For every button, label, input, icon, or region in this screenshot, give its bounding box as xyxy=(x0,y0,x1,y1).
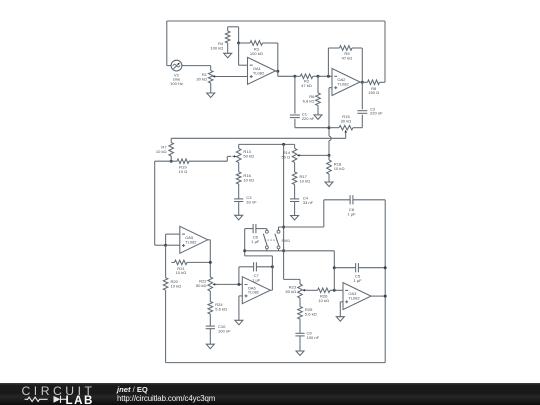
svg-text:1 µF: 1 µF xyxy=(252,277,261,282)
svg-text:50 kΩ: 50 kΩ xyxy=(243,154,254,159)
wire node down to OA1 minus xyxy=(238,43,240,65)
svg-text:30 kΩ: 30 kΩ xyxy=(196,76,207,81)
node OA5 input xyxy=(164,244,167,247)
svg-text:5.6 kΩ: 5.6 kΩ xyxy=(215,306,227,311)
svg-text:50 kΩ: 50 kΩ xyxy=(196,283,207,288)
svg-text:TL082: TL082 xyxy=(337,82,349,87)
svg-text:TL082: TL082 xyxy=(185,239,197,244)
capacitor C10 xyxy=(206,325,215,327)
node R2 right / R6 xyxy=(317,75,320,78)
svg-text:10 kΩ: 10 kΩ xyxy=(243,177,254,182)
resistor R6 xyxy=(317,76,319,93)
wire node to left drop xyxy=(155,160,172,162)
wire R23 branch xyxy=(284,278,300,280)
svg-text:10 kΩ: 10 kΩ xyxy=(318,298,329,303)
wire OA3 output xyxy=(371,295,385,297)
svg-text:150 Ω: 150 Ω xyxy=(368,90,379,95)
node C7 left xyxy=(237,283,240,286)
wire left vertical to V2 xyxy=(166,21,168,66)
wire OA2 plus down xyxy=(329,87,332,89)
switch SW1 left pole xyxy=(266,229,268,231)
wire OA3 plus to ground xyxy=(340,301,343,303)
ground below R4 xyxy=(224,53,232,58)
svg-text:TL082: TL082 xyxy=(253,70,265,75)
capacitor C6 xyxy=(245,228,253,230)
R23 wiper arrow xyxy=(302,289,305,292)
wire OA5 minus loop xyxy=(166,233,180,235)
resistor R17 xyxy=(292,172,297,185)
svg-text:1 µF: 1 µF xyxy=(353,278,362,283)
capacitor C8 xyxy=(324,199,350,201)
node R15 left xyxy=(328,126,331,129)
svg-text:50 Ω: 50 Ω xyxy=(282,155,291,160)
wire R13 top to R14 top xyxy=(239,143,295,145)
potentiometer R13 xyxy=(238,144,240,148)
R14 wiper arrow xyxy=(297,154,300,157)
node OA2 output xyxy=(361,81,364,84)
resistor R5 feedback xyxy=(327,48,329,76)
resistor R25 xyxy=(298,307,303,320)
wire C5 branch vertical xyxy=(333,251,335,290)
ground below R18 xyxy=(325,182,333,187)
svg-text:100 nF: 100 nF xyxy=(218,328,231,333)
op-amp OA5 xyxy=(180,226,208,253)
node R4/R3/OA1 inverting xyxy=(237,42,240,45)
resistor R21 xyxy=(171,261,174,263)
wire OA5 output down xyxy=(208,239,211,241)
resistor R26 xyxy=(318,288,331,293)
potentiometer R22 xyxy=(208,277,213,291)
wire right loop down xyxy=(384,200,386,363)
capacitor C4 xyxy=(290,198,299,200)
R1 wiper xyxy=(213,75,216,78)
potentiometer R1 xyxy=(210,66,212,71)
capacitor C5 xyxy=(334,267,355,269)
op-amp OA1 xyxy=(248,57,276,84)
wire OA6 output up xyxy=(270,289,272,291)
wire into OA5 plus xyxy=(166,244,180,246)
hop over bus xyxy=(329,136,331,140)
svg-text:10 kΩ: 10 kΩ xyxy=(300,178,311,183)
svg-text:47 kΩ: 47 kΩ xyxy=(301,83,312,88)
svg-text:10 kΩ: 10 kΩ xyxy=(156,149,167,154)
node OA6 out / rail xyxy=(243,249,246,252)
svg-text:LAB: LAB xyxy=(66,394,94,405)
resistor R24 xyxy=(208,302,213,315)
resistor R4 xyxy=(227,27,229,31)
node switch top rail xyxy=(282,226,285,229)
svg-text:30 kΩ: 30 kΩ xyxy=(341,119,352,124)
wire top feedback loop xyxy=(167,20,385,22)
node R14 wiper xyxy=(328,154,331,157)
resistor R19 xyxy=(171,160,177,162)
svg-text:TL082: TL082 xyxy=(248,290,260,295)
potentiometer R23 xyxy=(298,284,303,298)
wire switch vertical from tone line xyxy=(283,144,285,279)
ground below C9 xyxy=(296,351,304,356)
node R7 bottom xyxy=(170,160,173,163)
wire OA6 ground stem xyxy=(239,295,242,297)
ground below C4 xyxy=(291,216,299,221)
capacitor C2 xyxy=(361,82,363,109)
SW1 linkage xyxy=(265,239,278,241)
capacitor C7 feedback xyxy=(238,267,240,285)
wire R4 top to feedback node xyxy=(228,26,239,28)
svg-text:100 kΩ: 100 kΩ xyxy=(210,45,223,50)
ground below C3 xyxy=(235,215,243,220)
svg-text:33 nF: 33 nF xyxy=(303,200,314,205)
svg-text:100 Hz: 100 Hz xyxy=(170,81,183,86)
node tone line to switch xyxy=(282,143,285,146)
wire top rail to C8 xyxy=(279,226,324,228)
svg-text:1 µF: 1 µF xyxy=(251,239,260,244)
svg-text:47 kΩ: 47 kΩ xyxy=(342,56,353,61)
op-amp OA2 xyxy=(332,69,360,96)
wire C1 to R15 left xyxy=(295,127,329,129)
wire R19 to R13 wiper xyxy=(226,156,228,161)
wire V2 left stub xyxy=(167,65,171,67)
node R2 left / C1 xyxy=(293,75,296,78)
voltage source V2 xyxy=(171,60,182,71)
resistor R8 xyxy=(362,81,367,83)
ground below R1 xyxy=(207,93,215,98)
node C5 left xyxy=(333,266,336,269)
resistor R3 xyxy=(239,42,250,44)
node OA1 output xyxy=(276,70,279,73)
capacitor C9 xyxy=(295,332,304,334)
wire bottom rail xyxy=(245,250,335,252)
node switch bottom rail xyxy=(282,249,285,252)
resistor R20 xyxy=(165,245,167,278)
ground below C10 xyxy=(206,344,214,349)
CircuitLab footer bar xyxy=(0,383,540,405)
svg-text:220 nF: 220 nF xyxy=(302,116,315,121)
wire bottom rail of loop xyxy=(166,362,386,364)
svg-text:1 µF: 1 µF xyxy=(347,212,356,217)
R13 wiper arrow xyxy=(234,155,237,158)
op-amp OA3 xyxy=(343,283,371,310)
svg-text:5.6 kΩ: 5.6 kΩ xyxy=(305,312,317,317)
svg-text:10 kΩ: 10 kΩ xyxy=(171,284,182,289)
svg-text:6.8 kΩ: 6.8 kΩ xyxy=(303,99,315,104)
switch SW1 right pole xyxy=(278,227,280,230)
node R21 right xyxy=(209,261,212,264)
ground below OA6 xyxy=(235,320,243,325)
wire R2 to OA2 minus xyxy=(318,75,332,77)
svg-text:50 kΩ: 50 kΩ xyxy=(286,289,297,294)
svg-text:10 kΩ: 10 kΩ xyxy=(176,270,187,275)
wire R26 to OA3 minus xyxy=(334,289,343,291)
wire R3 to OA1 output xyxy=(277,43,279,71)
svg-text:10 kΩ: 10 kΩ xyxy=(334,166,345,171)
node R26 / OA3 minus xyxy=(333,289,336,292)
svg-text:100 kΩ: 100 kΩ xyxy=(250,51,263,56)
node C7 right xyxy=(271,265,274,268)
node OA3 output xyxy=(384,295,387,298)
resistor R18 xyxy=(328,155,330,160)
capacitor C3 xyxy=(234,198,243,200)
CircuitLab logo xyxy=(0,383,110,405)
ground below OA3 xyxy=(336,317,344,322)
wire bus R7 to R15 wiper xyxy=(171,137,346,139)
svg-text:TL082: TL082 xyxy=(348,296,360,301)
potentiometer R15 xyxy=(329,127,339,129)
svg-text:100 nF: 100 nF xyxy=(307,335,320,340)
wire V2 to R1 xyxy=(182,65,211,67)
potentiometer R14 xyxy=(294,144,296,148)
svg-text:33 nF: 33 nF xyxy=(246,200,257,205)
R15 wiper from bus xyxy=(345,134,347,139)
node C5 right xyxy=(384,266,387,269)
svg-text:220 nF: 220 nF xyxy=(370,111,383,116)
ground below R6 xyxy=(314,115,322,120)
resistor R7 xyxy=(170,138,172,142)
node R5 tap xyxy=(327,75,330,78)
svg-text:SW1: SW1 xyxy=(281,238,291,243)
svg-text:10 Ω: 10 Ω xyxy=(179,169,188,174)
resistor R16 xyxy=(236,172,241,184)
wire OA1 output jog xyxy=(276,70,278,72)
R22 wiper arrow xyxy=(213,283,216,286)
capacitor C1 xyxy=(294,76,296,113)
op-amp OA6 xyxy=(242,277,270,304)
wire R8 up to top loop xyxy=(384,21,386,82)
resistor R2 xyxy=(295,75,300,77)
